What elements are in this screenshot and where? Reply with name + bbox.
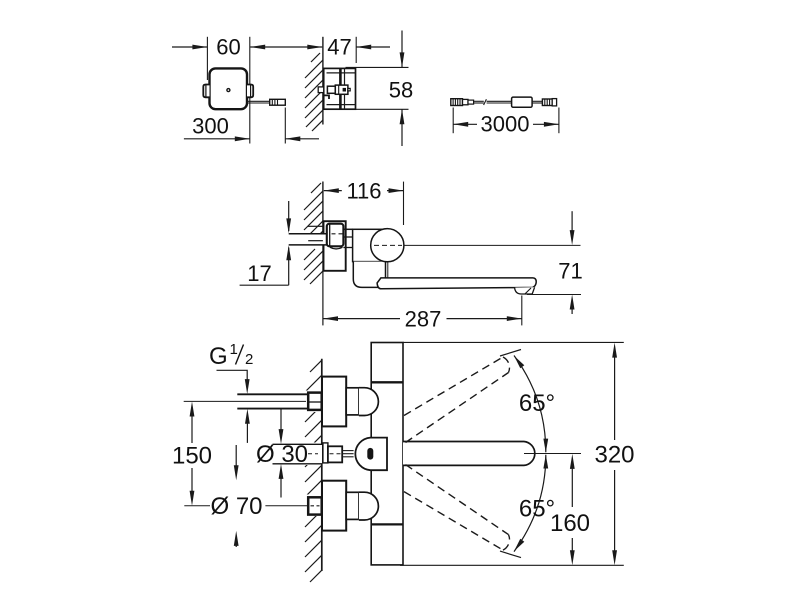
wall line bottom view [321,359,323,571]
wall line [322,37,324,125]
spout tip centerline [524,453,581,455]
sensor cable lines [342,450,353,452]
svg-text:116: 116 [346,179,381,204]
aerator nub [515,287,535,294]
body barrel [353,229,388,261]
top supply pipe [237,394,308,408]
cable segment with break [474,100,484,102]
wall unit outer box [324,68,356,109]
tick at upper tip [500,350,521,357]
dimension 17 upper arrow [288,201,290,231]
extension line 3000 left [452,108,454,134]
extension line 58 top [346,66,409,68]
svg-text:2: 2 [245,351,253,368]
wall unit thick divider [339,68,342,109]
sensor window [367,448,373,460]
spout stadium [403,442,535,466]
extension line cable end [284,108,286,144]
extension line box right (shared 60/300) [249,37,251,144]
arrow under top pipe [246,422,248,443]
dimension 60/47 middle line with outward arrows [250,46,322,48]
dimension 71 bottom arrow [571,308,573,314]
dimension 287 extension right [521,296,523,326]
sensor connector [328,446,342,462]
svg-text:65°: 65° [519,390,555,417]
plug block 2 [335,85,348,94]
svg-text:47: 47 [327,35,351,60]
plug block 1 [327,86,335,93]
upper 65 arc [514,356,546,453]
escutcheon side view [324,221,346,271]
dimension diameter 70 [235,445,237,467]
cable from box [247,100,270,102]
cable segment right [532,100,542,102]
wall hatching middle [304,183,323,284]
bottom pipe centerline [184,505,210,507]
dimension 150 [191,414,193,443]
svg-text:287: 287 [405,306,442,331]
bottom inlet housing [346,492,359,519]
dimension 3000 [453,123,477,125]
wall hatching [305,53,323,131]
dashed spout rotated down [404,465,510,550]
svg-text:160: 160 [550,510,590,537]
column top joint [371,381,403,383]
dimension 47 right arrow [356,46,390,48]
svg-text:60: 60 [216,35,240,60]
sensor flange on wall [323,443,328,463]
extension line 320 top [403,341,624,343]
dimension 116 [324,190,342,192]
svg-text:Ø 70: Ø 70 [210,493,262,520]
bottom escutcheon [322,481,346,531]
lower 65 arc [514,455,546,552]
dimension 116 extension right [403,182,405,225]
cable connector [270,99,286,105]
cable right connector [542,99,552,106]
plug stub through wall [318,87,324,93]
dimension 160 [571,466,573,507]
centerline through body [374,244,402,246]
svg-text:320: 320 [594,441,634,468]
wall unit thin divider [344,68,346,109]
hook below plug [324,95,329,99]
svg-text:17: 17 [247,261,271,286]
sensor housing dome [355,438,387,471]
svg-text:3000: 3000 [481,112,530,137]
wall hole edges [308,225,323,227]
svg-text:G: G [209,343,228,370]
dimension 287 [323,318,400,320]
extension line 3000 right [558,108,560,134]
tick at lower tip [500,551,521,558]
svg-text:71: 71 [558,258,582,283]
center dot [227,89,230,92]
wall hatching bottom [305,360,322,582]
body cylinder circle [371,229,404,262]
extension line 58 bottom [356,108,409,110]
top pipe centerline [184,400,306,402]
dimension 17 lower arrow and leader [288,248,290,286]
svg-text:150: 150 [172,443,212,470]
dimension diameter 30 [280,410,282,432]
dimension 71 top arrow [571,211,573,232]
svg-text:300: 300 [192,114,229,139]
dimension 60 left arrow [172,46,207,48]
top escutcheon [322,377,346,427]
spout side view [377,278,536,289]
wall line lower then extension to 287 [322,245,324,326]
column body [371,343,403,565]
wall unit inner bottom line [327,104,356,106]
dashed spout rotated up [404,357,510,443]
wall line upper [322,182,324,234]
svg-text:Ø 30: Ø 30 [256,441,308,468]
union nut [327,224,344,247]
cable left connector [451,99,463,106]
wall unit inner top line [327,72,356,74]
sensor conduit through wall [273,444,323,464]
neck between nut and body [343,236,352,238]
plug tip [348,88,350,91]
dimension 300 [184,138,250,140]
dimension 71 bottom extension [527,294,581,296]
sensor centerline dash [308,453,318,455]
spout holder below [353,262,385,288]
control box body [210,68,248,109]
extension line box left [206,37,208,80]
supply pipe side view [289,234,330,245]
dimension 58 [401,31,403,68]
control box left tab [203,85,209,98]
cable filter box [512,97,532,107]
column bottom joint [371,523,403,525]
top hex nut [308,393,322,410]
dimension 320 [614,355,616,441]
G 1/2 leader [217,370,248,381]
bottom hex nut [308,497,322,514]
control box right tab [247,85,253,98]
svg-text:1: 1 [230,341,238,358]
extension line 47 right [355,37,357,63]
extension line bottom [400,564,624,566]
top inlet housing [346,388,359,415]
svg-text:58: 58 [389,78,413,103]
white clear zones over hatching [302,391,322,413]
holder right thin line [387,262,389,278]
